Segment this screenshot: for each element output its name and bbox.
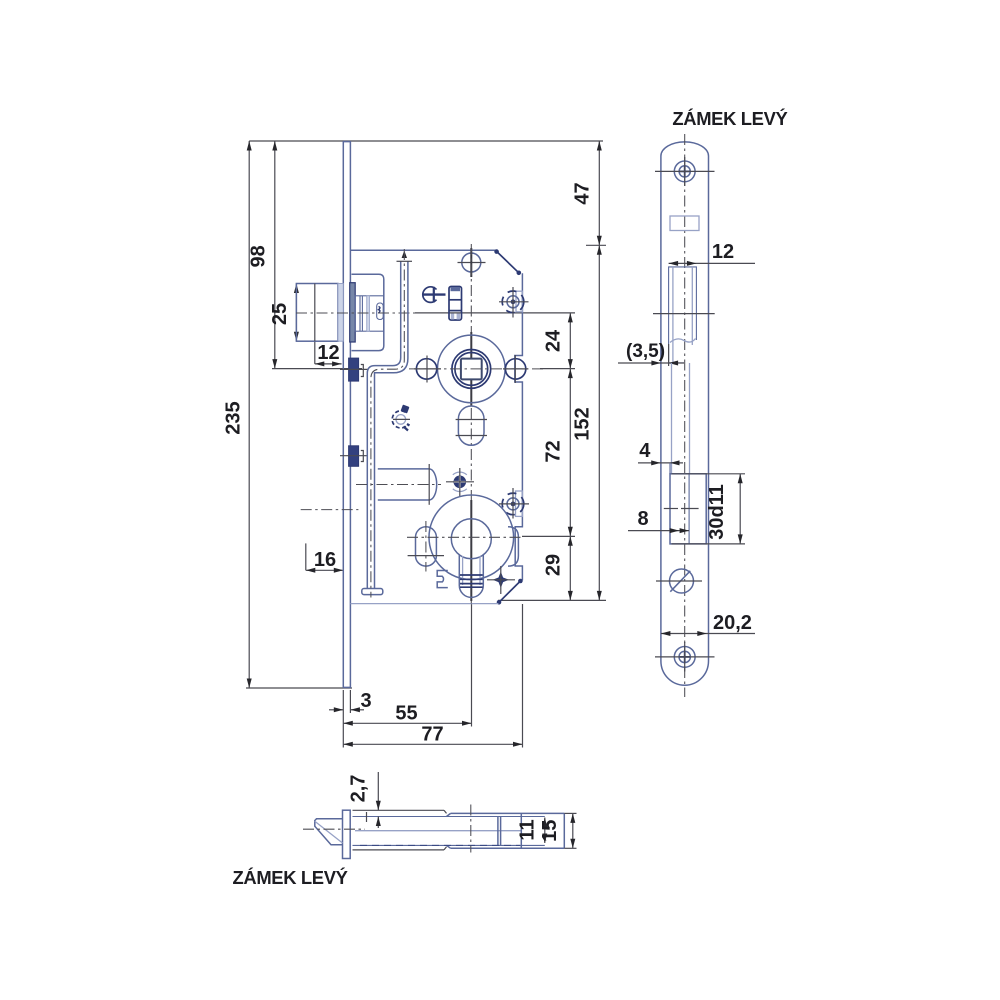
svg-text:(3,5): (3,5) (626, 341, 665, 362)
euro profile cylinder hole (451, 519, 491, 598)
bottom view cylinder centerline (470, 805, 472, 853)
dimension 4 (638, 440, 683, 465)
top screw hole (458, 248, 486, 277)
svg-text:16: 16 (314, 549, 336, 571)
bottom mounting screw (655, 642, 715, 672)
deadbolt tail bar (356, 464, 441, 505)
latch centerline (296, 312, 415, 314)
dimension 15 (539, 813, 577, 848)
faceplate front view (343, 141, 350, 688)
svg-text:25: 25 (269, 303, 291, 325)
bottom view label (233, 867, 348, 888)
screw boss left of cylinder (446, 468, 474, 496)
latch bolt head (296, 284, 343, 342)
screw lower right (499, 488, 529, 519)
lever bar (Z-bar) (362, 251, 412, 595)
cylinder rosette outer (429, 495, 514, 580)
bottom chamfer (497, 579, 523, 605)
svg-text:235: 235 (222, 401, 244, 434)
right view label (672, 108, 787, 129)
dimension 29 (498, 536, 606, 600)
svg-text:77: 77 (421, 724, 443, 746)
dimension 47 (572, 141, 607, 245)
plate hole centerline lower (301, 509, 359, 511)
dimension 235 (222, 141, 251, 688)
auxiliary rectangular hole (670, 216, 699, 231)
extension line bottom of faceplate (246, 687, 352, 689)
dimension 98 (248, 141, 362, 369)
top mounting screw (655, 157, 715, 186)
svg-text:4: 4 (639, 440, 651, 462)
latch guide box (352, 274, 384, 350)
svg-text:3: 3 (360, 690, 371, 712)
lock case bottom view body (353, 810, 565, 850)
dimension 12 latch (315, 341, 342, 366)
svg-text:ZÁMEK LEVÝ: ZÁMEK LEVÝ (233, 867, 348, 888)
phillips screw mark (487, 566, 515, 594)
follower right ear (503, 355, 528, 383)
cylinder left ear (408, 521, 444, 572)
follower left ear (414, 356, 441, 383)
cylinder right ear (508, 527, 518, 566)
dimension 16 (306, 543, 344, 572)
latch hole (669, 267, 697, 363)
lock case right edge (515, 273, 523, 580)
latch tail hidden lines (672, 363, 690, 474)
screw upper right (499, 287, 529, 318)
faceplate centerline (684, 134, 686, 697)
dimension 25 (269, 284, 299, 342)
dimension top extension line (249, 140, 603, 142)
svg-text:98: 98 (248, 245, 270, 267)
dimension 3 (329, 690, 372, 713)
hidden dashed line (360, 844, 520, 846)
deadbolt hole (664, 463, 706, 544)
follower horizontal centerline (409, 368, 545, 370)
svg-text:24: 24 (543, 329, 565, 352)
svg-text:15: 15 (539, 820, 561, 842)
dimension 20,2 (661, 612, 755, 636)
svg-text:55: 55 (395, 703, 417, 725)
svg-text:47: 47 (572, 182, 594, 204)
latch centerline tick (653, 313, 715, 315)
follower hub outer (438, 335, 506, 403)
cylinder horizontal centerline (407, 536, 522, 538)
dimension 30d11 (672, 474, 746, 544)
faceplate outline right view (661, 142, 709, 685)
dimension 72 (540, 369, 575, 537)
svg-text:72: 72 (543, 440, 565, 462)
top chamfer (494, 249, 521, 275)
lock case top edge (350, 249, 497, 251)
cylinder fixing bracket (437, 571, 448, 588)
svg-text:29: 29 (543, 554, 565, 576)
follower square hole (461, 359, 482, 380)
dimension 12 plate (669, 241, 755, 266)
bottom view centerline (303, 828, 365, 830)
faceplate edge view (343, 810, 351, 858)
dimension 77 (343, 604, 522, 748)
guide slot below follower (456, 406, 487, 445)
svg-text:11: 11 (517, 819, 539, 840)
svg-text:12: 12 (712, 241, 734, 263)
dimension 11 (517, 818, 548, 844)
svg-text:ZÁMEK LEVÝ: ZÁMEK LEVÝ (672, 108, 787, 129)
latch tip wedge (315, 819, 343, 845)
side screw symbol (423, 287, 446, 303)
svg-text:20,2: 20,2 (713, 612, 752, 634)
latch bolt through faceplate (section) (350, 283, 356, 342)
dimension 24 (415, 313, 575, 369)
svg-text:2,7: 2,7 (348, 775, 370, 803)
dimension 152 (572, 245, 602, 600)
svg-text:12: 12 (317, 342, 339, 364)
fixing stud upper (340, 358, 368, 381)
dimension 55 (343, 604, 471, 727)
latch spring clip (377, 303, 384, 320)
lever bar centerline (371, 249, 404, 598)
svg-text:152: 152 (572, 407, 594, 440)
spring tube (449, 287, 462, 321)
lower fixing hole with slash (656, 569, 702, 593)
keyway section lines (460, 575, 483, 587)
svg-text:30d11: 30d11 (706, 484, 728, 540)
latch tail (355, 296, 384, 331)
follower hub knurled rings (452, 350, 491, 389)
retaining clip detail (392, 405, 410, 431)
dimension 8 (628, 508, 689, 533)
svg-text:8: 8 (637, 508, 648, 530)
fixing stud lower (340, 446, 368, 467)
lock case bottom edge (350, 603, 498, 605)
dimension 2,7 (348, 772, 381, 828)
vertical centerline through follower and cylinder (470, 244, 472, 604)
dimension (3,5) (618, 341, 684, 366)
